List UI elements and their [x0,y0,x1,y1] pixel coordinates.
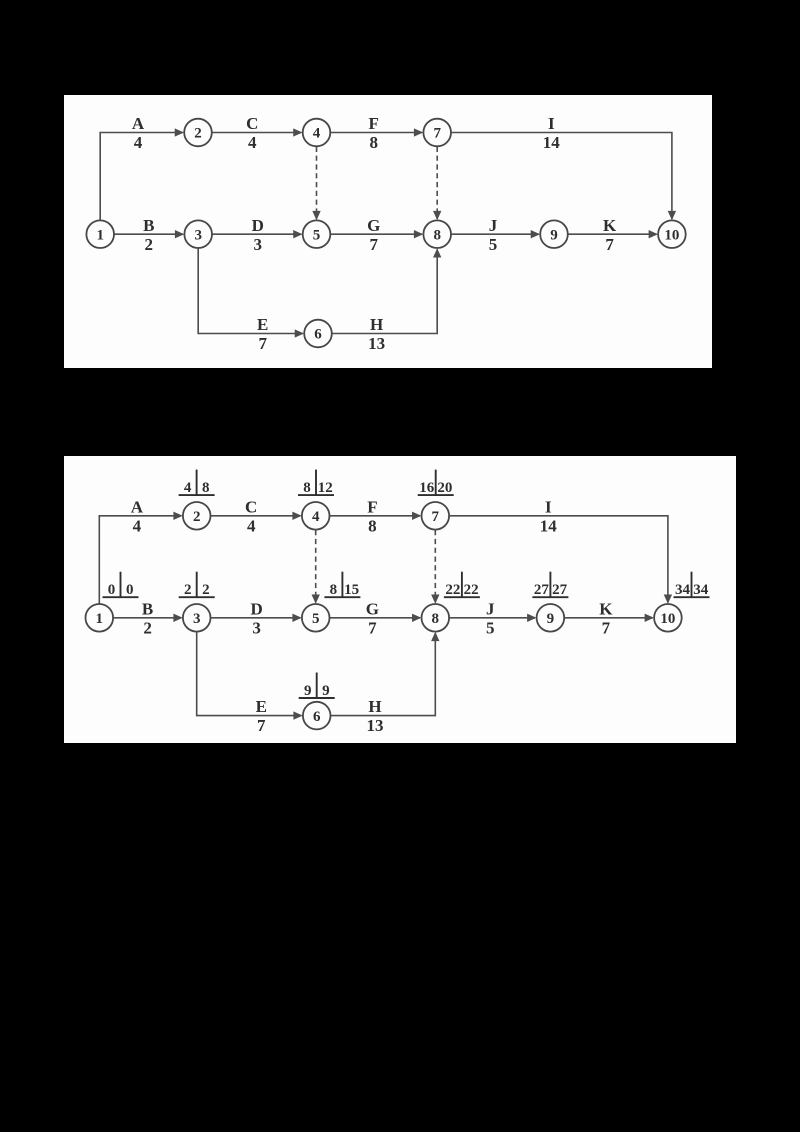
svg-text:C: C [246,114,258,133]
svg-text:9: 9 [304,683,312,699]
svg-text:7: 7 [602,618,611,637]
svg-text:2: 2 [193,509,201,525]
svg-text:7: 7 [432,509,440,525]
svg-text:34: 34 [675,582,691,598]
svg-text:5: 5 [489,235,498,254]
svg-text:I: I [545,497,552,516]
svg-text:1: 1 [96,227,104,243]
svg-text:2: 2 [145,235,154,254]
svg-text:G: G [367,216,380,235]
svg-text:D: D [252,216,264,235]
svg-text:15: 15 [344,582,359,598]
svg-text:8: 8 [202,480,210,496]
svg-text:F: F [367,497,377,516]
svg-text:27: 27 [534,582,550,598]
svg-text:14: 14 [540,516,558,535]
svg-text:27: 27 [552,582,568,598]
svg-text:F: F [369,114,379,133]
svg-text:13: 13 [368,334,385,353]
svg-text:G: G [366,599,379,618]
svg-text:H: H [370,315,383,334]
svg-text:9: 9 [322,683,330,699]
svg-text:6: 6 [314,327,322,343]
svg-text:A: A [132,114,145,133]
svg-text:7: 7 [370,235,379,254]
svg-text:2: 2 [143,618,152,637]
svg-text:8: 8 [303,480,311,496]
svg-text:8: 8 [368,516,377,535]
svg-text:B: B [143,216,154,235]
svg-text:7: 7 [433,126,441,142]
svg-text:B: B [142,599,153,618]
svg-text:8: 8 [330,582,338,598]
svg-text:3: 3 [252,618,261,637]
svg-text:C: C [245,497,257,516]
svg-text:H: H [368,697,381,716]
svg-text:7: 7 [368,618,377,637]
svg-text:4: 4 [248,133,257,152]
svg-text:4: 4 [133,516,142,535]
svg-text:5: 5 [486,618,495,637]
svg-text:4: 4 [312,509,320,525]
svg-text:22: 22 [464,582,479,598]
svg-text:7: 7 [258,334,267,353]
svg-text:4: 4 [134,133,143,152]
svg-text:12: 12 [318,480,333,496]
svg-text:2: 2 [184,582,192,598]
svg-text:0: 0 [126,582,134,598]
svg-text:16: 16 [419,480,435,496]
svg-text:5: 5 [312,611,320,627]
svg-text:2: 2 [202,582,210,598]
svg-text:K: K [599,599,613,618]
svg-text:0: 0 [108,582,116,598]
svg-text:22: 22 [445,582,460,598]
svg-text:34: 34 [693,582,709,598]
svg-text:7: 7 [605,235,614,254]
svg-text:I: I [548,114,555,133]
svg-text:D: D [250,599,262,618]
svg-text:J: J [486,599,495,618]
svg-text:13: 13 [367,716,384,735]
svg-text:5: 5 [313,227,321,243]
svg-text:7: 7 [257,716,266,735]
svg-text:3: 3 [254,235,263,254]
svg-text:2: 2 [194,126,202,142]
svg-text:20: 20 [437,480,452,496]
svg-text:E: E [257,315,268,334]
svg-text:6: 6 [313,709,321,725]
svg-text:8: 8 [370,133,379,152]
svg-text:8: 8 [432,611,440,627]
svg-text:10: 10 [664,227,679,243]
svg-text:1: 1 [96,611,104,627]
svg-text:8: 8 [433,227,441,243]
svg-text:K: K [603,216,617,235]
svg-text:3: 3 [194,227,202,243]
svg-text:J: J [489,216,498,235]
svg-text:4: 4 [313,126,321,142]
svg-text:A: A [131,497,144,516]
svg-text:9: 9 [550,227,558,243]
svg-text:E: E [256,697,267,716]
svg-text:10: 10 [660,611,675,627]
svg-text:14: 14 [543,133,561,152]
svg-text:3: 3 [193,611,201,627]
svg-text:9: 9 [547,611,555,627]
svg-text:4: 4 [184,480,192,496]
svg-text:4: 4 [247,516,256,535]
